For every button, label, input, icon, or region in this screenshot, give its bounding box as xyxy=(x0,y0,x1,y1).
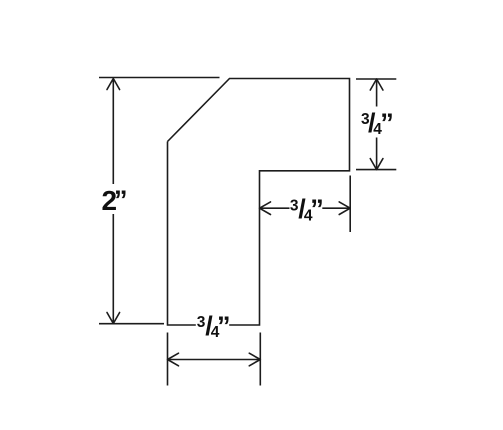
arrowhead 2" down xyxy=(107,313,120,324)
dimension line 2" vertical xyxy=(112,79,114,323)
extension line top-left (2" top) xyxy=(99,77,220,79)
label 3/4" top right xyxy=(361,108,394,138)
svg-text:”: ” xyxy=(114,185,128,215)
dimension line 3/4" vertical right xyxy=(376,80,378,169)
molding profile outline xyxy=(168,79,350,326)
extension line bottom dim right xyxy=(259,333,261,386)
extension line bottom-left (2" bottom) xyxy=(99,323,164,325)
extension line top-right lower (3/4" bottom) xyxy=(356,169,396,171)
arrowhead 3/4" right up xyxy=(370,79,383,90)
label 2" xyxy=(102,185,128,216)
extension line mid-right (3/4" horizontal dim) xyxy=(349,176,351,233)
label 3/4" middle xyxy=(290,194,324,224)
dimension line 3/4" horizontal middle xyxy=(261,207,350,209)
arrowhead 3/4" right down xyxy=(370,159,383,170)
extension line bottom dim left xyxy=(167,333,169,386)
svg-text:”: ” xyxy=(310,194,324,224)
extension line top-right upper (3/4" top) xyxy=(356,78,396,80)
dimension line 3/4" horizontal bottom xyxy=(169,359,260,361)
arrowhead mid right xyxy=(339,202,350,215)
svg-text:”: ” xyxy=(380,108,394,138)
arrowhead mid left xyxy=(260,202,271,215)
label 3/4" bottom xyxy=(197,311,231,341)
svg-text:”: ” xyxy=(217,311,231,341)
arrowhead 2" up xyxy=(107,79,120,90)
arrowhead bottom right xyxy=(249,353,260,366)
arrowhead bottom left xyxy=(168,353,179,366)
